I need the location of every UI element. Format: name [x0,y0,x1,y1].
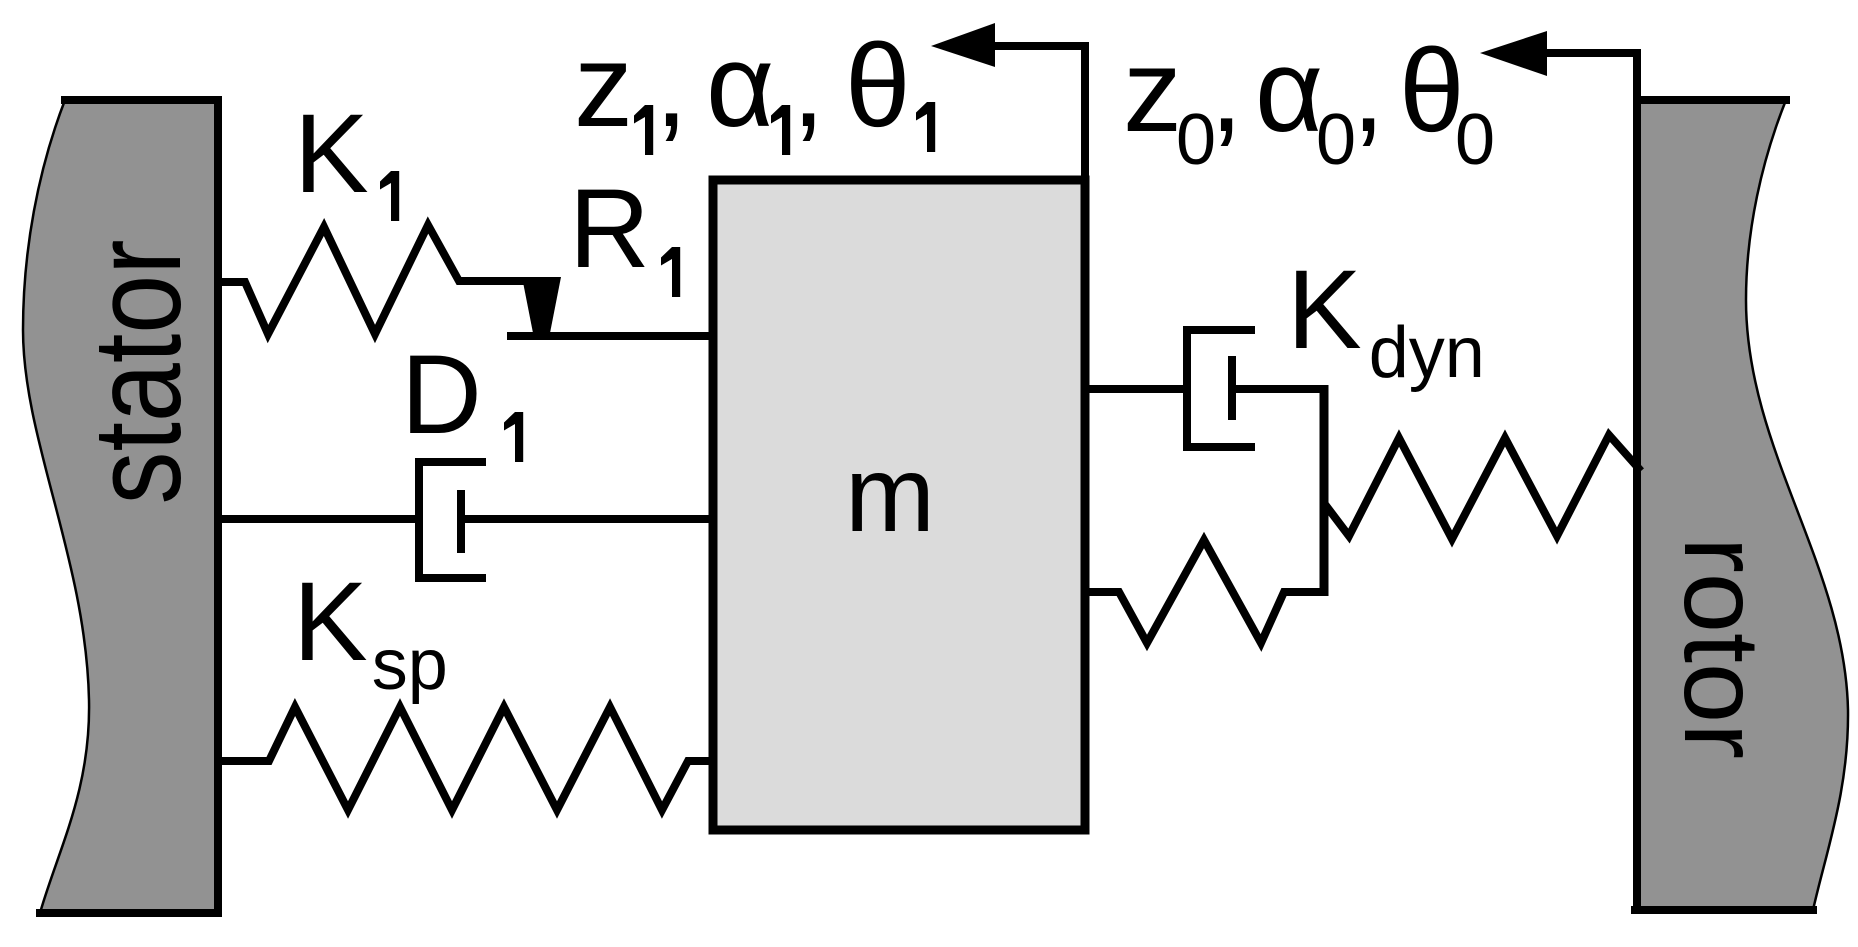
svg-text:,: , [792,20,825,152]
svg-text:D: D [401,332,482,457]
svg-text:0: 0 [1455,100,1495,180]
svg-text:α: α [1255,25,1323,157]
svg-text:,: , [655,20,688,152]
svg-text:rotor: rotor [1662,537,1783,759]
svg-text:z: z [574,20,633,152]
svg-text:,: , [1352,25,1385,157]
svg-text:m: m [845,433,935,554]
svg-text:Kdyn: Kdyn [1287,247,1485,393]
svg-text:0: 0 [1316,100,1356,180]
svg-text:,: , [1210,25,1243,157]
svg-text:K: K [294,91,369,216]
svg-text:R: R [569,166,650,291]
svg-text:stator: stator [67,239,207,504]
svg-text:α: α [706,20,774,152]
svg-text:z: z [1123,25,1182,157]
svg-text:θ: θ [845,20,911,152]
